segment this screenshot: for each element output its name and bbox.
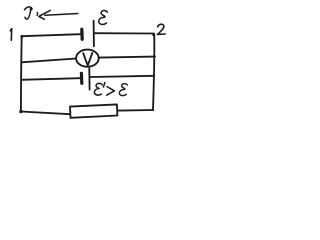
node 2 label: [158, 24, 166, 34]
wire top-left: [22, 34, 81, 36]
voltmeter wire left: [22, 59, 76, 63]
junction bottom-left: [19, 110, 22, 113]
battery E-prime negative plate (thick short): [80, 73, 84, 83]
wire bottom-left: [21, 112, 70, 115]
node 1 label: [10, 29, 12, 41]
battery E positive plate (thin long): [93, 21, 95, 47]
voltmeter V1: [76, 50, 99, 67]
wire E-prime left: [21, 78, 79, 80]
wire top-right: [94, 32, 154, 34]
junction node 1: [20, 35, 23, 38]
wire left vertical: [20, 37, 23, 112]
wire right vertical: [153, 35, 154, 110]
wire E-prime right: [90, 76, 154, 77]
label E (emf): [99, 11, 108, 25]
resistor R: [70, 104, 117, 117]
wire bottom-right: [117, 109, 153, 112]
battery E negative plate (thick short): [80, 29, 84, 39]
current arrow: [39, 10, 78, 19]
junction node 2: [152, 33, 155, 36]
battery E-prime positive plate (thin long): [88, 68, 90, 89]
current label I: [24, 7, 37, 19]
voltmeter wire right: [99, 57, 155, 58]
label E-prime > E: [94, 83, 127, 96]
